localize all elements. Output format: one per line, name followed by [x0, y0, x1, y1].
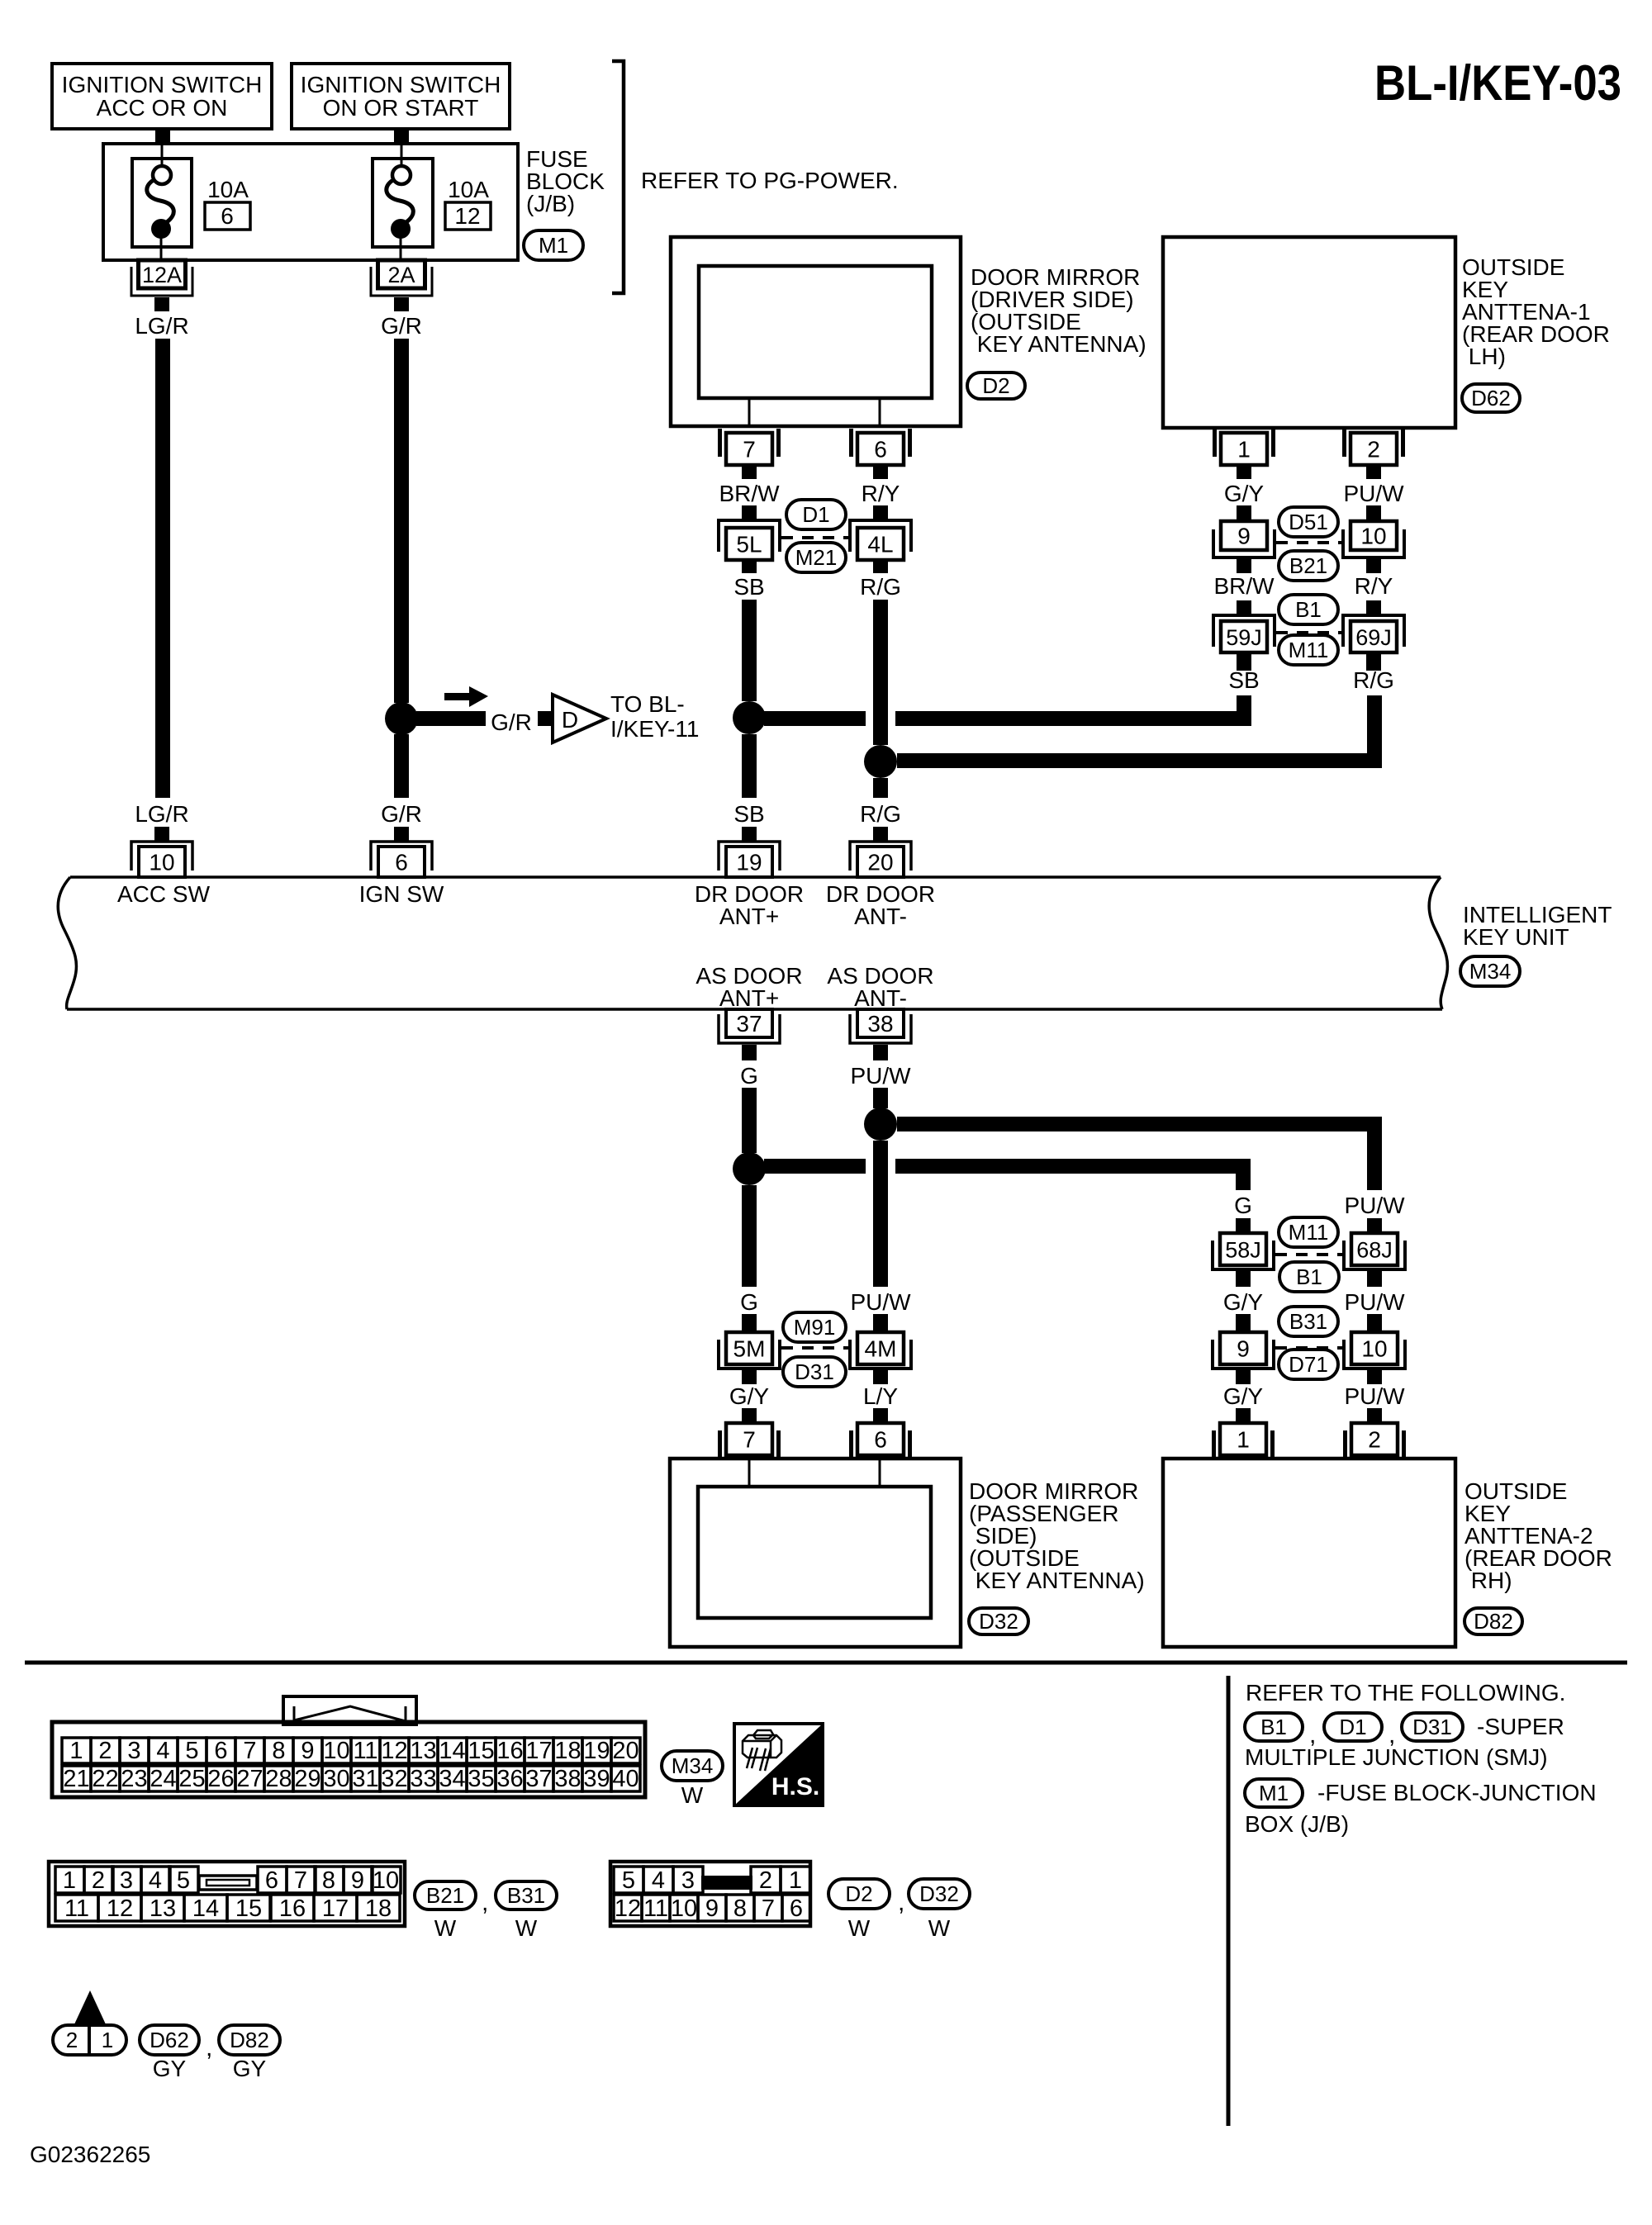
svg-text:6: 6: [221, 203, 234, 229]
svg-text:G: G: [740, 1289, 758, 1315]
svg-text:SB: SB: [733, 574, 764, 600]
label PU/W above 4M: [850, 1289, 911, 1315]
component OUTSIDE KEY ANTTENA-2 box: [1163, 1459, 1455, 1647]
connector oval M34: [1460, 956, 1520, 986]
svg-text:4: 4: [652, 1867, 665, 1894]
connector oval M11: [1279, 635, 1338, 665]
svg-text:8: 8: [272, 1738, 285, 1764]
wire stub to 10 lower: [1367, 1314, 1382, 1332]
svg-text:D2: D2: [982, 373, 1009, 398]
label GY under D62: [153, 2056, 187, 2081]
svg-text:MULTIPLE JUNCTION (SMJ): MULTIPLE JUNCTION (SMJ): [1245, 1744, 1548, 1770]
svg-text:38: 38: [554, 1766, 581, 1792]
svg-text:3: 3: [127, 1738, 140, 1764]
svg-text:REFER TO THE FOLLOWING.: REFER TO THE FOLLOWING.: [1246, 1680, 1565, 1706]
comma between B21 B31: [482, 1889, 488, 1916]
svg-text:15: 15: [235, 1895, 262, 1922]
svg-text:6: 6: [214, 1738, 227, 1764]
svg-text:-FUSE BLOCK-JUNCTION: -FUSE BLOCK-JUNCTION: [1317, 1780, 1597, 1805]
svg-text:11: 11: [353, 1738, 377, 1764]
label G/Y below 58J: [1223, 1289, 1264, 1315]
svg-text:1: 1: [63, 1867, 76, 1894]
connector oval D82: [1464, 1608, 1522, 1634]
SMJ connector 10 upper: [1343, 521, 1404, 573]
label BR/W antenna-1: [1213, 573, 1275, 599]
label R/G driver mirror: [860, 574, 901, 600]
pin 38 AS DOOR ANT-: [850, 1009, 911, 1060]
svg-text:PU/W: PU/W: [1343, 481, 1404, 506]
svg-text:W: W: [848, 1915, 871, 1941]
svg-text:R/Y: R/Y: [1355, 573, 1393, 599]
connector oval M91: [783, 1312, 846, 1342]
svg-text:PU/W: PU/W: [850, 1063, 911, 1089]
svg-text:KEY ANTENNA): KEY ANTENNA): [969, 1568, 1145, 1593]
svg-text:35: 35: [468, 1766, 494, 1792]
wire SB vertical lower: [742, 734, 757, 798]
label R/G antenna-1: [1353, 667, 1394, 693]
svg-text:LG/R: LG/R: [135, 313, 188, 339]
svg-text:ANT-: ANT-: [854, 904, 907, 929]
wire stub to 68J: [1367, 1218, 1382, 1233]
svg-text:25: 25: [178, 1766, 205, 1792]
svg-text:1: 1: [102, 2028, 113, 2052]
svg-text:15: 15: [468, 1738, 494, 1764]
wire PU/W horizontal to antenna-2: [897, 1117, 1382, 1190]
svg-text:G/R: G/R: [381, 801, 422, 827]
label G/R top: [381, 313, 422, 339]
svg-text:W: W: [515, 1915, 538, 1941]
label W under B31: [515, 1915, 538, 1941]
svg-text:ANT-: ANT-: [854, 985, 907, 1011]
svg-text:69J: 69J: [1355, 625, 1392, 650]
pin 10 ACC SW: [131, 827, 192, 877]
svg-text:W: W: [681, 1782, 704, 1808]
wire stub box2 to fuse block: [394, 129, 409, 145]
svg-text:KEY ANTENNA): KEY ANTENNA): [971, 331, 1146, 357]
comma between D2 D32: [898, 1889, 904, 1916]
label DOOR MIRROR (DRIVER SIDE): [971, 264, 1146, 357]
wire G vertical upper: [742, 1088, 757, 1153]
svg-text:M91: M91: [794, 1315, 836, 1340]
svg-text:W: W: [434, 1915, 457, 1941]
label G/Y antenna-1: [1224, 481, 1265, 506]
svg-text:D82: D82: [230, 2028, 269, 2052]
SMJ connector 10 lower: [1344, 1332, 1405, 1384]
label DOOR MIRROR (PASSENGER SIDE): [969, 1478, 1145, 1593]
label REFER TO PG-POWER.: [641, 168, 899, 193]
svg-text:10A: 10A: [207, 177, 249, 202]
connector oval D31: [783, 1357, 846, 1387]
wire SB vertical upper: [742, 600, 757, 701]
connector oval M1 reference: [1245, 1779, 1303, 1807]
svg-text:16: 16: [496, 1738, 523, 1764]
connector oval D2 pinout: [828, 1879, 890, 1909]
svg-text:2: 2: [1367, 437, 1380, 463]
label PU/W above pin 2: [1344, 1383, 1405, 1409]
svg-text:10: 10: [1360, 524, 1386, 549]
svg-text:12: 12: [381, 1738, 407, 1764]
svg-text:5: 5: [177, 1867, 190, 1894]
svg-text:19: 19: [583, 1738, 610, 1764]
connector oval D31 reference: [1402, 1713, 1463, 1741]
connector oval D32: [969, 1608, 1028, 1634]
svg-text:10: 10: [149, 850, 174, 875]
svg-text:2: 2: [98, 1738, 112, 1764]
svg-text:16: 16: [279, 1895, 306, 1922]
wire PU/W vertical upper: [873, 1088, 888, 1108]
SMJ dashed line 5L-4L: [781, 536, 848, 539]
svg-text:D: D: [562, 707, 578, 733]
svg-text:LG/R: LG/R: [135, 801, 188, 827]
wire SB horizontal to antenna-1: [764, 695, 1251, 726]
SMJ connector 69J: [1343, 615, 1404, 671]
svg-text:20: 20: [867, 850, 893, 875]
connector oval D1 reference: [1324, 1713, 1382, 1741]
off-page connector D triangle: [553, 695, 606, 742]
svg-text:6: 6: [790, 1895, 803, 1922]
svg-text:34: 34: [439, 1766, 465, 1792]
svg-text:38: 38: [867, 1011, 893, 1037]
wire G/R vertical upper: [394, 339, 409, 703]
svg-text:2: 2: [92, 1867, 105, 1894]
pin 6 door mirror passenger: [849, 1408, 912, 1459]
svg-text:37: 37: [736, 1011, 762, 1037]
svg-text:7: 7: [294, 1867, 307, 1894]
svg-text:10: 10: [323, 1738, 349, 1764]
label IGN SW: [359, 881, 444, 907]
box IGNITION SWITCH ON OR START: [292, 64, 510, 129]
svg-text:G: G: [1234, 1193, 1252, 1218]
SMJ connector 9 upper: [1213, 521, 1275, 573]
svg-text:6: 6: [874, 437, 887, 463]
wire stub to 4L: [873, 505, 888, 520]
svg-text:4: 4: [149, 1867, 162, 1894]
svg-text:2A: 2A: [387, 263, 415, 287]
wire R/G vertical lower: [873, 778, 888, 798]
label LG/R above pin 10: [135, 801, 188, 827]
SMJ connector 5M: [719, 1332, 780, 1384]
SMJ connector 58J: [1213, 1233, 1274, 1287]
svg-text:39: 39: [583, 1766, 610, 1792]
arrow right marker: [444, 686, 488, 707]
wire G/R branch segment 2: [538, 711, 552, 726]
svg-text:IGNITION SWITCH: IGNITION SWITCH: [62, 72, 263, 97]
svg-text:6: 6: [265, 1867, 278, 1894]
wire stub to 69J: [1366, 600, 1381, 615]
label FUSE BLOCK (J/B): [526, 146, 605, 216]
label L/Y above pin 6 passenger: [863, 1383, 898, 1409]
wire stub to 9: [1237, 505, 1251, 521]
comma after D1: [1389, 1721, 1395, 1748]
label G below pin 37: [740, 1063, 758, 1089]
junction G/R: [385, 702, 418, 735]
label G02362265: [30, 2142, 150, 2167]
svg-text:17: 17: [322, 1895, 349, 1922]
svg-text:14: 14: [439, 1738, 465, 1764]
svg-text:G/R: G/R: [381, 313, 422, 339]
svg-text:10A: 10A: [448, 177, 489, 202]
SMJ connector 4M: [850, 1332, 911, 1384]
svg-text:BR/W: BR/W: [719, 481, 780, 506]
connector oval M21: [786, 543, 846, 572]
label R/Y: [862, 481, 900, 506]
svg-text:REFER TO PG-POWER.: REFER TO PG-POWER.: [641, 168, 899, 193]
comma after B1: [1309, 1721, 1316, 1748]
connector oval M11 lower: [1279, 1217, 1338, 1247]
wire R/G vertical upper: [873, 600, 888, 745]
label R/Y antenna-1: [1355, 573, 1393, 599]
pin 6 door mirror driver: [849, 429, 912, 479]
connector oval D62: [1462, 384, 1520, 412]
svg-text:12A: 12A: [142, 263, 182, 287]
svg-text:28: 28: [265, 1766, 292, 1792]
svg-text:32: 32: [381, 1766, 407, 1792]
svg-text:D71: D71: [1289, 1352, 1328, 1377]
wire G vertical lower: [742, 1185, 757, 1287]
label BOX (J/B): [1245, 1811, 1349, 1837]
label W under B21: [434, 1915, 457, 1941]
svg-text:33: 33: [410, 1766, 436, 1792]
svg-text:R/Y: R/Y: [862, 481, 900, 506]
svg-text:G02362265: G02362265: [30, 2142, 150, 2167]
component DOOR MIRROR passenger side box: [670, 1459, 961, 1647]
svg-text:4M: 4M: [865, 1336, 897, 1362]
label MULTIPLE JUNCTION (SMJ): [1245, 1744, 1548, 1770]
label 10A fuse 12: [445, 177, 491, 230]
label -FUSE BLOCK-JUNCTION: [1317, 1780, 1597, 1805]
svg-text:M11: M11: [1289, 1220, 1329, 1245]
label TO BL-I/KEY-11: [610, 691, 699, 742]
svg-text:12: 12: [454, 203, 480, 229]
connector oval B1 lower: [1279, 1262, 1339, 1292]
svg-text:18: 18: [365, 1895, 392, 1922]
wire G/R branch segment 1: [416, 711, 486, 726]
svg-text:M34: M34: [672, 1753, 714, 1778]
label W under D32: [928, 1915, 951, 1941]
svg-text:M11: M11: [1289, 638, 1329, 662]
label INTELLIGENT KEY UNIT: [1463, 902, 1612, 950]
svg-text:B21: B21: [1289, 553, 1327, 578]
svg-text:36: 36: [496, 1766, 523, 1792]
separator line: [25, 1661, 1627, 1665]
label DR DOOR ANT+: [695, 881, 804, 929]
junction PU/W: [864, 1108, 897, 1141]
svg-text:5: 5: [622, 1867, 635, 1894]
svg-text:2: 2: [759, 1867, 772, 1894]
label REFER TO THE FOLLOWING.: [1246, 1680, 1565, 1706]
svg-text:3: 3: [681, 1867, 695, 1894]
title BL-I/KEY-03: [1374, 55, 1621, 111]
connector B21/B31 18-pin block: [49, 1862, 405, 1926]
svg-text:2: 2: [1368, 1427, 1381, 1453]
svg-text:M1: M1: [1259, 1781, 1289, 1805]
pin 1 antenna-1: [1213, 429, 1275, 479]
svg-text:BOX (J/B): BOX (J/B): [1245, 1811, 1349, 1837]
svg-text:G/R: G/R: [491, 709, 532, 735]
svg-text:20: 20: [612, 1738, 638, 1764]
svg-text:30: 30: [323, 1766, 349, 1792]
label PU/W above 68J: [1344, 1193, 1405, 1218]
svg-text:LH): LH): [1462, 344, 1506, 369]
wire stub to 9 lower: [1236, 1314, 1251, 1332]
svg-text:,: ,: [206, 2034, 212, 2061]
label G/Y above pin 1: [1223, 1383, 1264, 1409]
svg-text:ANT+: ANT+: [719, 904, 779, 929]
wire stub to 5M: [742, 1314, 757, 1332]
svg-text:22: 22: [92, 1766, 118, 1792]
svg-text:21: 21: [63, 1766, 89, 1792]
pin 2 antenna-2: [1343, 1408, 1406, 1459]
fuse block bracket: [612, 61, 624, 293]
svg-text:D82: D82: [1474, 1609, 1513, 1634]
svg-text:58J: 58J: [1225, 1238, 1261, 1263]
connector oval M34 pinout: [662, 1751, 723, 1781]
vertical divider line: [1227, 1676, 1231, 2126]
svg-text:M21: M21: [795, 545, 838, 570]
svg-text:6: 6: [395, 850, 408, 875]
svg-text:PU/W: PU/W: [850, 1289, 911, 1315]
pin 6 IGN SW: [371, 827, 432, 877]
label SB above pin 19: [733, 801, 764, 827]
svg-text:BL-I/KEY-03: BL-I/KEY-03: [1374, 55, 1621, 111]
connector oval D82 pinout: [219, 2025, 280, 2055]
label W under M34: [681, 1782, 704, 1808]
view icon H.S.: [734, 1724, 823, 1805]
svg-text:1: 1: [1237, 437, 1251, 463]
connector oval B1: [1279, 595, 1338, 624]
label OUTSIDE KEY ANTTENA-1: [1462, 254, 1610, 369]
wire G horizontal to antenna-2: [764, 1159, 1251, 1190]
svg-text:D1: D1: [1339, 1715, 1366, 1739]
SMJ connector 5L: [719, 520, 780, 573]
connector oval D51: [1279, 507, 1338, 537]
label AS DOOR ANT-: [827, 963, 933, 1011]
svg-text:SB: SB: [733, 801, 764, 827]
junction SB: [733, 701, 766, 734]
SMJ connector 4L: [850, 520, 911, 573]
svg-text:26: 26: [207, 1766, 234, 1792]
connector oval D71: [1279, 1350, 1338, 1379]
svg-text:B1: B1: [1295, 597, 1322, 622]
SMJ dashed line 59J-69J: [1276, 631, 1341, 634]
svg-text:RH): RH): [1464, 1568, 1512, 1593]
SMJ dashed line 9-10: [1276, 541, 1341, 544]
svg-text:10: 10: [671, 1895, 697, 1922]
svg-text:G/Y: G/Y: [1223, 1383, 1264, 1409]
connector oval M1: [524, 230, 583, 260]
svg-text:TO BL-: TO BL-: [610, 691, 685, 717]
svg-text:M1: M1: [539, 233, 568, 258]
svg-text:29: 29: [294, 1766, 320, 1792]
svg-text:13: 13: [410, 1738, 436, 1764]
svg-text:9: 9: [1237, 524, 1251, 549]
svg-text:IGNITION SWITCH: IGNITION SWITCH: [301, 72, 501, 97]
junction G: [733, 1152, 766, 1185]
connector oval B21: [1279, 551, 1338, 581]
label OUTSIDE KEY ANTTENA-2: [1464, 1478, 1612, 1593]
label BR/W: [719, 481, 780, 506]
label -SUPER: [1477, 1714, 1564, 1739]
svg-text:9: 9: [351, 1867, 364, 1894]
connector oval B31: [1279, 1307, 1338, 1336]
wire LG/R vertical: [155, 339, 170, 798]
label ACC SW: [117, 881, 211, 907]
svg-text:GY: GY: [233, 2056, 267, 2081]
svg-text:D32: D32: [979, 1609, 1018, 1634]
SMJ dashed line 9-10 lower: [1275, 1346, 1342, 1350]
connector oval D32 pinout: [909, 1879, 970, 1909]
wire stub to 58J: [1236, 1218, 1251, 1233]
label G above 58J: [1234, 1193, 1252, 1218]
label DR DOOR ANT-: [826, 881, 935, 929]
label G/Y above pin 7 passenger: [729, 1383, 770, 1409]
SMJ connector 59J: [1213, 615, 1275, 671]
label PU/W below pin 38: [850, 1063, 911, 1089]
svg-text:8: 8: [733, 1895, 747, 1922]
svg-text:,: ,: [898, 1889, 904, 1916]
wire stub to 10: [1366, 505, 1381, 521]
component INTELLIGENT KEY UNIT band: [58, 877, 1447, 1009]
label G/R above pin 6: [381, 801, 422, 827]
pin 19 DR DOOR ANT+: [719, 827, 780, 877]
label G/R branch: [491, 709, 532, 735]
box IGNITION SWITCH ACC OR ON: [52, 64, 272, 129]
fuse block J/B rectangle: [103, 144, 518, 260]
svg-text:9: 9: [705, 1895, 719, 1922]
svg-text:ANT+: ANT+: [719, 985, 779, 1011]
label LG/R top: [135, 313, 188, 339]
svg-text:37: 37: [525, 1766, 552, 1792]
connector 2A: [371, 260, 432, 311]
svg-text:D51: D51: [1289, 510, 1328, 534]
svg-text:1: 1: [1237, 1427, 1250, 1453]
wire stub to 59J: [1237, 600, 1251, 615]
connector M34 40-pin block: [52, 1696, 645, 1797]
svg-text:8: 8: [322, 1867, 335, 1894]
svg-text:IGN SW: IGN SW: [359, 881, 444, 907]
fuse 10A No.6: [132, 144, 192, 260]
svg-text:,: ,: [482, 1889, 488, 1916]
svg-text:D62: D62: [150, 2028, 189, 2052]
connector oval D62 pinout: [140, 2025, 199, 2055]
svg-text:4L: 4L: [867, 532, 893, 557]
svg-text:5M: 5M: [733, 1336, 766, 1362]
svg-text:D62: D62: [1471, 386, 1511, 410]
svg-text:1: 1: [69, 1738, 83, 1764]
label PU/W below 68J: [1344, 1289, 1405, 1315]
fuse 10A No.12: [373, 144, 433, 260]
connector 12A: [131, 260, 192, 311]
label W under D2: [848, 1915, 871, 1941]
svg-text:ACC SW: ACC SW: [117, 881, 211, 907]
label SB driver mirror: [733, 574, 764, 600]
svg-text:W: W: [928, 1915, 951, 1941]
svg-text:ACC OR ON: ACC OR ON: [97, 95, 228, 121]
svg-text:68J: 68J: [1356, 1238, 1393, 1263]
svg-text:7: 7: [743, 437, 756, 463]
svg-text:PU/W: PU/W: [1344, 1383, 1405, 1409]
svg-text:G/Y: G/Y: [1223, 1289, 1264, 1315]
label R/G above pin 20: [860, 801, 901, 827]
svg-text:(J/B): (J/B): [526, 191, 575, 216]
svg-text:1: 1: [789, 1867, 802, 1894]
svg-text:D1: D1: [802, 502, 829, 527]
svg-text:SB: SB: [1228, 667, 1259, 693]
svg-text:GY: GY: [153, 2056, 187, 2081]
svg-text:G/Y: G/Y: [1224, 481, 1265, 506]
wire R/G horizontal to antenna-1: [897, 695, 1382, 768]
label SB antenna-1: [1228, 667, 1259, 693]
